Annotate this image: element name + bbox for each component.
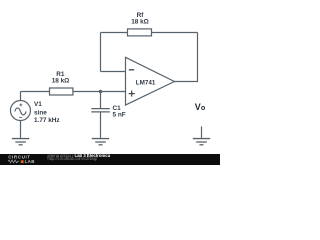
- svg-text:http://circuitlab.com/c2rbsgr: http://circuitlab.com/c2rbsgr: [48, 156, 99, 161]
- svg-text:Vo: Vo: [195, 102, 206, 112]
- svg-text:LAB: LAB: [25, 159, 35, 164]
- svg-text:V1: V1: [34, 101, 42, 108]
- svg-text:5 nF: 5 nF: [113, 112, 126, 119]
- svg-text:18 kΩ: 18 kΩ: [52, 78, 70, 85]
- svg-text:sine: sine: [34, 110, 47, 117]
- svg-text:18 kΩ: 18 kΩ: [131, 19, 149, 26]
- svg-text:1.77 kHz: 1.77 kHz: [34, 117, 60, 124]
- svg-text:LM741: LM741: [136, 79, 156, 86]
